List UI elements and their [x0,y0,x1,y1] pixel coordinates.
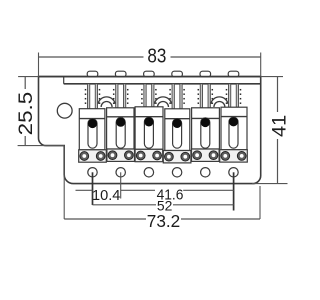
plate lip line [64,83,261,85]
saddle 5 body [192,108,220,149]
saddle 4 spring dots [169,89,185,104]
mounting screw head 6 [228,71,239,77]
saddle 5 string ball (black) [201,118,210,127]
dim 52 line [93,204,157,206]
plate top edge line [39,76,261,78]
saddle 1 string ball (black) [88,119,97,128]
saddle 1 body [79,109,105,150]
dim 73.2 line [64,218,146,220]
svg-text:83: 83 [147,46,166,68]
extension line plate left (73.2) [63,146,65,219]
dim 41 extension lines [261,76,283,78]
saddle 4 body [165,109,190,151]
dim 41.6 line [121,189,155,191]
string hole 3 [144,168,153,177]
saddle 6 spring dots [226,89,242,104]
mounting screw head 2 [115,71,126,77]
saddle 2 height screw block [107,149,135,161]
extension line string hole 1 [92,172,94,205]
saddle 4 height screw block [163,151,191,163]
saddle 5 height screw block [192,149,220,161]
saddle arch 2 [154,97,171,107]
svg-text:25.5: 25.5 [15,92,37,136]
saddle 2 body [107,108,134,149]
saddle 2 spring dots [113,89,129,104]
dim 41 line [277,77,279,112]
saddle 3 spring dots [141,89,157,104]
mounting screw head 4 [172,71,183,77]
string hole 5 [201,168,210,177]
dim 25.5 extension lines [18,76,38,78]
saddle arch 3 [211,97,228,107]
saddle 2 string ball (black) [116,118,125,127]
extension line string hole 6 [233,172,235,210]
saddle 1 height screw block [79,150,107,162]
svg-text:10.4: 10.4 [92,188,120,204]
saddle 1 intonation rails [87,84,89,109]
saddle 4 intonation rails [172,84,174,109]
extension line string hole 2 [120,172,122,198]
dim 83 extension lines [38,53,40,77]
bridge plate outline [39,77,261,184]
string hole 4 [172,168,181,177]
svg-text:73.2: 73.2 [147,211,181,231]
saddle 3 intonation rails [144,84,146,107]
saddle 4 string ball (black) [173,119,182,128]
saddle 6 body [221,107,247,150]
extension line plate right (73.2) [259,186,261,219]
dim 25.5 line [24,77,26,89]
tremolo arm hole [57,103,72,118]
mounting screw head 1 [87,71,98,77]
saddle 6 height screw block [220,150,248,162]
saddle 6 string ball (black) [229,117,238,126]
saddle 6 intonation rails [228,84,230,107]
saddle 3 height screw block [135,149,163,161]
mounting screw head 3 [144,71,155,77]
dim 10.4 leader [76,189,93,191]
lip step vertical [63,77,65,84]
svg-text:41: 41 [268,115,290,137]
string hole 6 [229,168,238,177]
dim 83 line [39,56,144,58]
saddle arch 1 [98,97,115,107]
string hole 1 [88,168,97,177]
saddle 3 body [135,107,163,150]
mounting screw head 5 [200,71,211,77]
saddle 3 string ball (black) [144,117,153,126]
saddle 1 spring dots [85,89,101,104]
saddle 5 spring dots [198,89,214,104]
string hole 2 [116,168,125,177]
saddle 5 intonation rails [200,84,202,108]
saddle 2 intonation rails [116,84,118,108]
